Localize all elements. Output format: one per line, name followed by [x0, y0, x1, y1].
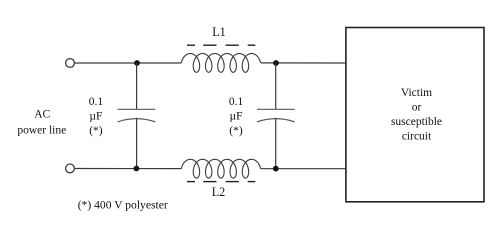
- capacitor C2 wire upper: [275, 63, 277, 109]
- node junction top of C1: [134, 60, 140, 66]
- terminal circle bottom-left: [66, 164, 75, 173]
- svg-text:susceptible: susceptible: [391, 116, 442, 128]
- capacitor C2 curved plate: [257, 119, 295, 122]
- svg-text:(*): (*): [229, 125, 243, 137]
- svg-text:µF: µF: [229, 111, 242, 123]
- svg-text:circuit: circuit: [402, 131, 432, 143]
- capacitor C1 wire lower: [136, 118, 138, 169]
- svg-text:0.1: 0.1: [229, 96, 244, 108]
- wire bottom rail right: [261, 168, 346, 170]
- inductor L1: [181, 54, 260, 73]
- svg-text:(*): (*): [89, 125, 103, 137]
- node junction bottom of C2: [273, 166, 279, 172]
- wire bottom rail left: [75, 168, 182, 170]
- svg-text:or: or: [412, 101, 422, 113]
- svg-text:L1: L1: [212, 25, 226, 39]
- svg-text:0.1: 0.1: [89, 96, 104, 108]
- terminal circle top-left: [66, 59, 75, 68]
- wire top rail right: [261, 62, 346, 64]
- capacitor C2 wire lower: [275, 118, 277, 169]
- node junction bottom of C1: [134, 166, 140, 172]
- svg-text:AC: AC: [34, 109, 50, 121]
- svg-text:µF: µF: [89, 111, 102, 123]
- victim box: [346, 28, 484, 202]
- capacitor C1 wire upper: [136, 63, 138, 109]
- wire top rail left: [75, 62, 182, 64]
- svg-text:Victim: Victim: [401, 87, 432, 99]
- node junction top of C2: [273, 60, 279, 66]
- svg-text:(*) 400 V polyester: (*) 400 V polyester: [78, 199, 168, 212]
- L2 core dashed line: [187, 181, 255, 183]
- capacitor C2 top plate: [257, 108, 295, 110]
- svg-text:power line: power line: [17, 124, 66, 136]
- inductor L2: [181, 159, 260, 178]
- capacitor C1 top plate: [118, 108, 156, 110]
- capacitor C1 curved plate: [118, 119, 156, 122]
- L1 core dashed line: [187, 44, 255, 46]
- svg-text:L2: L2: [212, 185, 226, 199]
